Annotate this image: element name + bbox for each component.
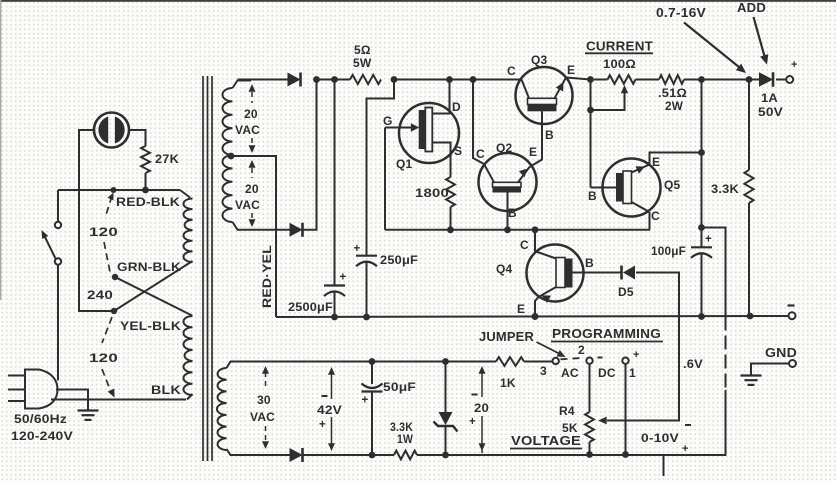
- svg-text:ADD: ADD: [737, 1, 766, 15]
- wire D2 cathode up: [303, 80, 317, 230]
- junction Q1 drain tap: [446, 76, 453, 83]
- terminal GND: [789, 360, 796, 367]
- svg-text:D: D: [452, 100, 461, 114]
- transistor Q4: [527, 245, 584, 302]
- junction D1 output: [313, 76, 320, 83]
- capacitor 100uF: [691, 246, 712, 248]
- wire Q1 D: [432, 80, 450, 114]
- wire Q4 E down: [535, 297, 539, 317]
- svg-text:Q3: Q3: [531, 53, 548, 67]
- svg-text:G: G: [383, 114, 393, 128]
- resistor 3.3K: [748, 80, 750, 171]
- secondary winding 20/20 VAC: [223, 88, 233, 222]
- svg-text:E: E: [567, 63, 575, 77]
- svg-text:+: +: [354, 243, 361, 255]
- wire Q5 E to node: [650, 153, 702, 165]
- wire rail to Q3 C: [450, 79, 522, 81]
- node RED-BLK line: [58, 189, 180, 191]
- svg-text:2500μF: 2500μF: [288, 300, 333, 314]
- wire switch to plug: [57, 265, 59, 381]
- terminal 3: [553, 358, 559, 364]
- measure 120 primary bottom dashed: [102, 317, 112, 343]
- svg-text:Q4: Q4: [496, 262, 513, 276]
- svg-text:50μF: 50μF: [383, 380, 416, 394]
- rail negative: [276, 316, 788, 317]
- svg-text:+: +: [791, 59, 798, 71]
- svg-text:VAC: VAC: [250, 410, 275, 424]
- capacitor 2500uF: [334, 80, 336, 286]
- svg-text:1W: 1W: [397, 432, 413, 446]
- diode D2: [290, 223, 303, 237]
- svg-text:2: 2: [578, 343, 585, 357]
- ground plug side: [78, 409, 99, 411]
- svg-text:+: +: [469, 416, 476, 428]
- svg-text:B: B: [545, 128, 554, 142]
- svg-text:+: +: [319, 419, 326, 431]
- label minus 0-10V: [685, 424, 691, 426]
- svg-text:+: +: [362, 395, 369, 407]
- stub below rail: [663, 455, 665, 476]
- wire rail to zener: [350, 454, 394, 456]
- wire plug to ground: [56, 390, 88, 411]
- svg-text:20: 20: [245, 182, 259, 196]
- svg-text:VAC: VAC: [235, 198, 260, 212]
- svg-text:3.3K: 3.3K: [711, 182, 739, 196]
- svg-text:E: E: [529, 145, 537, 159]
- svg-text:250μF: 250μF: [380, 253, 418, 267]
- node base bus: [385, 229, 650, 231]
- svg-text:D5: D5: [618, 285, 634, 299]
- arrow 0.7-16V: [684, 23, 742, 70]
- transformer core: [202, 76, 204, 461]
- measure 42V: [328, 367, 335, 375]
- wire Q2 collector tap: [470, 76, 477, 83]
- jumper dashed link: [561, 358, 585, 360]
- capacitor 50uF: [362, 384, 383, 389]
- wire terminal 1 down: [625, 364, 627, 455]
- wire lamp left lead to GRN-BLK crossover node: [79, 130, 113, 311]
- wire plug to BLK: [51, 399, 186, 401]
- wire GRN-BLK crossover: [114, 261, 193, 311]
- wire Q1 S: [432, 143, 450, 178]
- svg-text:YEL-BLK: YEL-BLK: [120, 319, 181, 333]
- wire Q1 gate down: [384, 128, 386, 230]
- svg-text:1: 1: [629, 366, 636, 380]
- junction after 5ohm: [391, 76, 398, 83]
- wire lamp right lead to 27K: [129, 130, 146, 146]
- wire Q2 base: [507, 193, 509, 230]
- svg-text:C: C: [520, 238, 529, 252]
- wire Q5 C to base bus: [649, 212, 651, 230]
- svg-text:50V: 50V: [758, 105, 783, 119]
- svg-text:PROGRAMMING: PROGRAMMING: [552, 326, 661, 341]
- wire secondary bottom to D2: [233, 222, 290, 230]
- resistor 1800: [446, 177, 455, 207]
- svg-text:GND: GND: [765, 346, 797, 360]
- wire 50uF branch: [369, 358, 376, 365]
- svg-text:1K: 1K: [500, 376, 516, 390]
- label minus output: [788, 304, 795, 306]
- svg-text:C: C: [651, 209, 660, 223]
- measure 120 primary top dashed: [108, 193, 114, 201]
- terminal 2 AC: [586, 358, 592, 364]
- wire lower secondary bottom: [227, 449, 290, 455]
- svg-text:CURRENT: CURRENT: [586, 39, 653, 54]
- wire rail D1 to 2500uF tap: [317, 79, 335, 81]
- AC plug P1: [25, 370, 58, 409]
- measure 20: [479, 366, 486, 374]
- svg-text:R4: R4: [559, 404, 575, 418]
- potentiometer 100ohm: [594, 79, 608, 81]
- secondary winding 30 VAC: [217, 368, 227, 450]
- rail lower bottom: [446, 454, 719, 456]
- svg-text:50/60Hz: 50/60Hz: [14, 412, 67, 426]
- wire YEL-BLK crossover: [115, 277, 192, 316]
- svg-text:27K: 27K: [155, 152, 179, 166]
- wire node to 100uF: [701, 153, 703, 248]
- svg-text:120-240V: 120-240V: [11, 429, 73, 443]
- svg-text:Q5: Q5: [664, 178, 681, 192]
- wire secondary top to rail: [233, 81, 252, 89]
- svg-text:BLK: BLK: [151, 383, 181, 397]
- svg-text:RED·YEL: RED·YEL: [260, 245, 274, 308]
- svg-text:+: +: [705, 234, 712, 246]
- wire rail 5ohm to Q1 D tap: [394, 79, 450, 81]
- svg-text:RED-BLK: RED-BLK: [116, 195, 180, 209]
- svg-text:0.7-16V: 0.7-16V: [656, 6, 707, 20]
- svg-text:B: B: [508, 206, 517, 220]
- diode D5: [620, 266, 623, 280]
- svg-text:30: 30: [257, 393, 271, 407]
- svg-text:B: B: [588, 189, 597, 203]
- resistor 27K: [141, 146, 150, 173]
- wire lower secondary top: [227, 362, 497, 369]
- measure 20 VAC upper dashed: [249, 84, 256, 92]
- wire Q4 C up: [535, 230, 536, 252]
- svg-text:Q2: Q2: [496, 141, 513, 155]
- resistor .51ohm 2W: [659, 75, 684, 84]
- ground GND: [741, 374, 762, 376]
- diode D1: [288, 73, 301, 87]
- wire terminal 2 to R4: [589, 364, 591, 412]
- svg-text:2W: 2W: [665, 99, 683, 113]
- svg-text:120: 120: [89, 225, 118, 239]
- svg-text:120: 120: [89, 351, 118, 365]
- wire Q4 B to D5: [584, 272, 622, 274]
- svg-text:+: +: [340, 272, 347, 284]
- zener D4: [442, 358, 449, 365]
- transistor Q5: [603, 159, 661, 217]
- terminal + output: [786, 76, 793, 83]
- svg-text:AC: AC: [561, 366, 579, 380]
- measure 20 VAC lower dashed: [249, 160, 256, 168]
- svg-text:1A: 1A: [761, 91, 778, 105]
- neon pilot lamp PL1: [94, 113, 129, 148]
- svg-text:Q1: Q1: [396, 157, 413, 171]
- resistor 3.3K 1W: [394, 451, 417, 460]
- primary winding RED-BLK/GRN-BLK: [183, 199, 192, 263]
- svg-text:VOLTAGE: VOLTAGE: [511, 433, 581, 448]
- diode D3: [290, 448, 303, 462]
- svg-text:+: +: [633, 349, 640, 361]
- svg-text:240: 240: [87, 288, 113, 302]
- capacitor 250uF: [356, 255, 377, 257]
- svg-text:20: 20: [474, 401, 489, 415]
- primary winding YEL-BLK/BLK: [183, 316, 192, 395]
- secondary center tap: [228, 153, 235, 160]
- svg-text:100Ω: 100Ω: [603, 57, 636, 71]
- measure 30 VAC dashed: [262, 366, 269, 374]
- transistor Q2: [479, 153, 537, 211]
- svg-text:VAC: VAC: [235, 123, 260, 137]
- junction .51ohm out: [698, 76, 705, 83]
- wire junction to 250uF: [367, 80, 395, 256]
- terminal 1 DC: [622, 358, 628, 364]
- switch S1: [55, 222, 61, 228]
- arrow JUMPER: [537, 342, 563, 355]
- wire Q3 E to rail: [566, 78, 591, 80]
- svg-text:S: S: [454, 144, 462, 158]
- transistor Q1: [399, 103, 459, 163]
- wire rail to 5ohm: [335, 79, 351, 81]
- svg-text:20: 20: [244, 107, 258, 121]
- wire top rail to D1: [238, 79, 288, 81]
- wire BLK tap: [187, 394, 193, 400]
- resistor 1K: [496, 357, 524, 366]
- svg-text:B: B: [585, 256, 594, 270]
- svg-text:42V: 42V: [317, 403, 342, 417]
- svg-text:+: +: [682, 443, 689, 455]
- svg-text:1800: 1800: [415, 186, 449, 200]
- arrow ADD: [754, 17, 766, 58]
- svg-text:.6V: .6V: [683, 357, 703, 371]
- wire Q2 E to Q3 B: [530, 111, 543, 167]
- wire pot node down to Q5 B: [590, 80, 592, 188]
- wire D5 to R4 wiper: [607, 273, 679, 421]
- potentiometer R4 5K: [585, 412, 594, 442]
- svg-text:C: C: [507, 64, 516, 78]
- resistor 5ohm 5W: [350, 75, 381, 84]
- svg-text:C: C: [476, 147, 485, 161]
- svg-text:DC: DC: [598, 366, 616, 380]
- wire 100uF top to lower rail: [702, 228, 726, 317]
- wire node to switch: [57, 190, 59, 222]
- svg-text:GRN-BLK: GRN-BLK: [117, 260, 181, 274]
- svg-text:E: E: [517, 302, 525, 316]
- svg-text:JUMPER: JUMPER: [479, 330, 534, 344]
- svg-text:.51Ω: .51Ω: [658, 86, 687, 100]
- diode D6 output: [749, 79, 759, 81]
- svg-text:100μF: 100μF: [651, 244, 686, 258]
- svg-text:E: E: [652, 155, 660, 169]
- svg-text:3: 3: [540, 364, 547, 378]
- transistor Q3: [516, 67, 573, 124]
- svg-text:5W: 5W: [353, 56, 372, 70]
- svg-text:0-10V: 0-10V: [641, 431, 679, 445]
- svg-text:5Ω: 5Ω: [354, 43, 371, 57]
